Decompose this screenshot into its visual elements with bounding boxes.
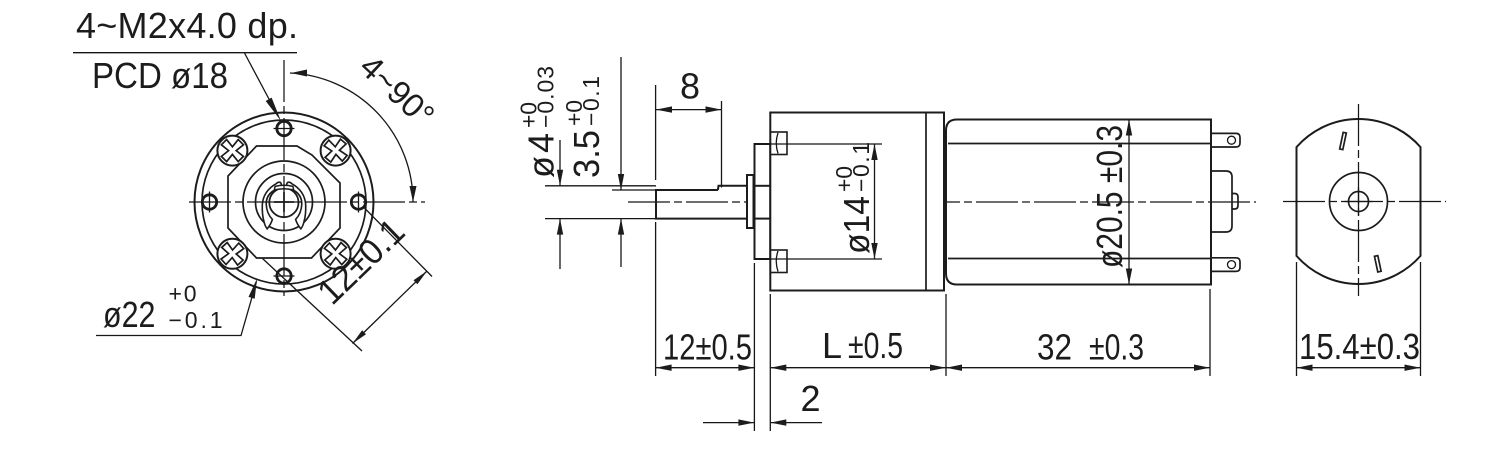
svg-text:±0.5: ±0.5: [848, 325, 903, 366]
svg-text:+0: +0: [831, 166, 857, 192]
svg-text:ø14: ø14: [836, 196, 877, 254]
svg-text:PCD ø18: PCD ø18: [92, 55, 228, 96]
svg-text:12±0.5: 12±0.5: [663, 327, 752, 368]
svg-text:3.5: 3.5: [566, 130, 607, 178]
svg-text:2: 2: [800, 378, 820, 419]
svg-text:15.4±0.3: 15.4±0.3: [1299, 326, 1420, 367]
svg-text:32: 32: [1037, 327, 1072, 368]
svg-text:ø20.5 ±0.3: ø20.5 ±0.3: [1089, 125, 1130, 268]
svg-text:+0: +0: [516, 102, 542, 128]
svg-text:4~M2x4.0 dp.: 4~M2x4.0 dp.: [76, 5, 298, 46]
svg-text:8: 8: [680, 66, 700, 107]
svg-text:ø22: ø22: [103, 294, 156, 335]
svg-text:+0: +0: [561, 100, 587, 126]
svg-text:±0.3: ±0.3: [1089, 327, 1144, 368]
svg-text:L: L: [822, 325, 842, 366]
svg-text:−0.1: −0.1: [169, 307, 223, 333]
